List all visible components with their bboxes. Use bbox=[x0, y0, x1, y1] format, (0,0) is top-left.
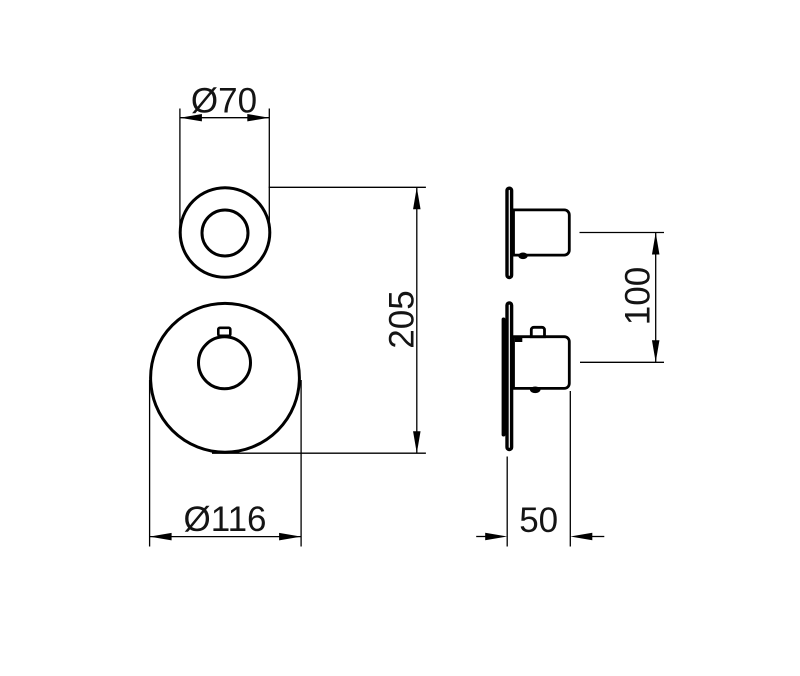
side view small: lever detail blob bbox=[518, 253, 528, 260]
front view: large trim plate circle (Ø116) bbox=[151, 303, 300, 452]
dim 50: right tail line bbox=[591, 536, 604, 538]
side view small: wall plate profile bbox=[507, 188, 512, 277]
dim Ø116: right arrowhead bbox=[279, 533, 301, 541]
dim 205: bottom arrowhead bbox=[413, 431, 421, 453]
dim 50: left tail line bbox=[476, 536, 486, 538]
side view small: knob body bbox=[514, 210, 570, 255]
dim Ø70: left arrowhead bbox=[180, 114, 202, 121]
dim Ø70: dimension line bbox=[180, 117, 269, 119]
side view large: wall plate profile bbox=[507, 303, 512, 450]
svg-text:Ø70: Ø70 bbox=[191, 82, 257, 121]
dim 100: top extension line bbox=[580, 232, 665, 234]
front view: small knob inner circle bbox=[202, 210, 248, 256]
dim Ø70: left extension line bbox=[179, 109, 181, 229]
svg-text:50: 50 bbox=[519, 501, 558, 540]
dim 205: top extension line bbox=[269, 186, 426, 188]
dim 50: right extension line bbox=[569, 391, 571, 547]
dim Ø70: right arrowhead bbox=[247, 114, 269, 121]
dim 50: left extension line bbox=[506, 457, 508, 547]
dim 100: bottom extension line bbox=[580, 361, 664, 363]
side view large: knob body bbox=[514, 337, 570, 389]
front view: thermostat knob inner circle bbox=[199, 337, 251, 389]
dim 100: top arrowhead bbox=[652, 233, 660, 255]
dim 205: bottom extension line bbox=[212, 452, 426, 454]
svg-text:205: 205 bbox=[383, 290, 422, 348]
front view: small trim plate circle (Ø70) bbox=[180, 188, 270, 278]
dim 50: left arrowhead (outside, pointing right) bbox=[485, 533, 507, 541]
side view large: index tab on top bbox=[531, 327, 544, 336]
dim Ø116: left arrowhead bbox=[150, 533, 172, 541]
dim 50: right arrowhead (outside, pointing left) bbox=[570, 533, 592, 541]
front view: knob index tab bbox=[218, 328, 230, 336]
dim 205: top arrowhead bbox=[413, 187, 421, 209]
dim Ø70: right extension line bbox=[268, 109, 270, 225]
dim Ø116: left extension line bbox=[149, 380, 151, 547]
dim 100: dimension line bbox=[655, 233, 657, 363]
dim 205: dimension line bbox=[416, 187, 418, 453]
svg-text:Ø116: Ø116 bbox=[183, 500, 266, 539]
dim Ø116: right extension line bbox=[300, 380, 302, 547]
svg-text:100: 100 bbox=[619, 267, 658, 325]
side view large: bottom-center tick detail bbox=[530, 387, 541, 394]
dim 100: bottom arrowhead bbox=[652, 340, 660, 362]
side view large: top-left tick detail bbox=[515, 337, 523, 342]
side view large: back gasket bar bbox=[502, 318, 506, 437]
dim Ø116: dimension line bbox=[150, 536, 302, 538]
